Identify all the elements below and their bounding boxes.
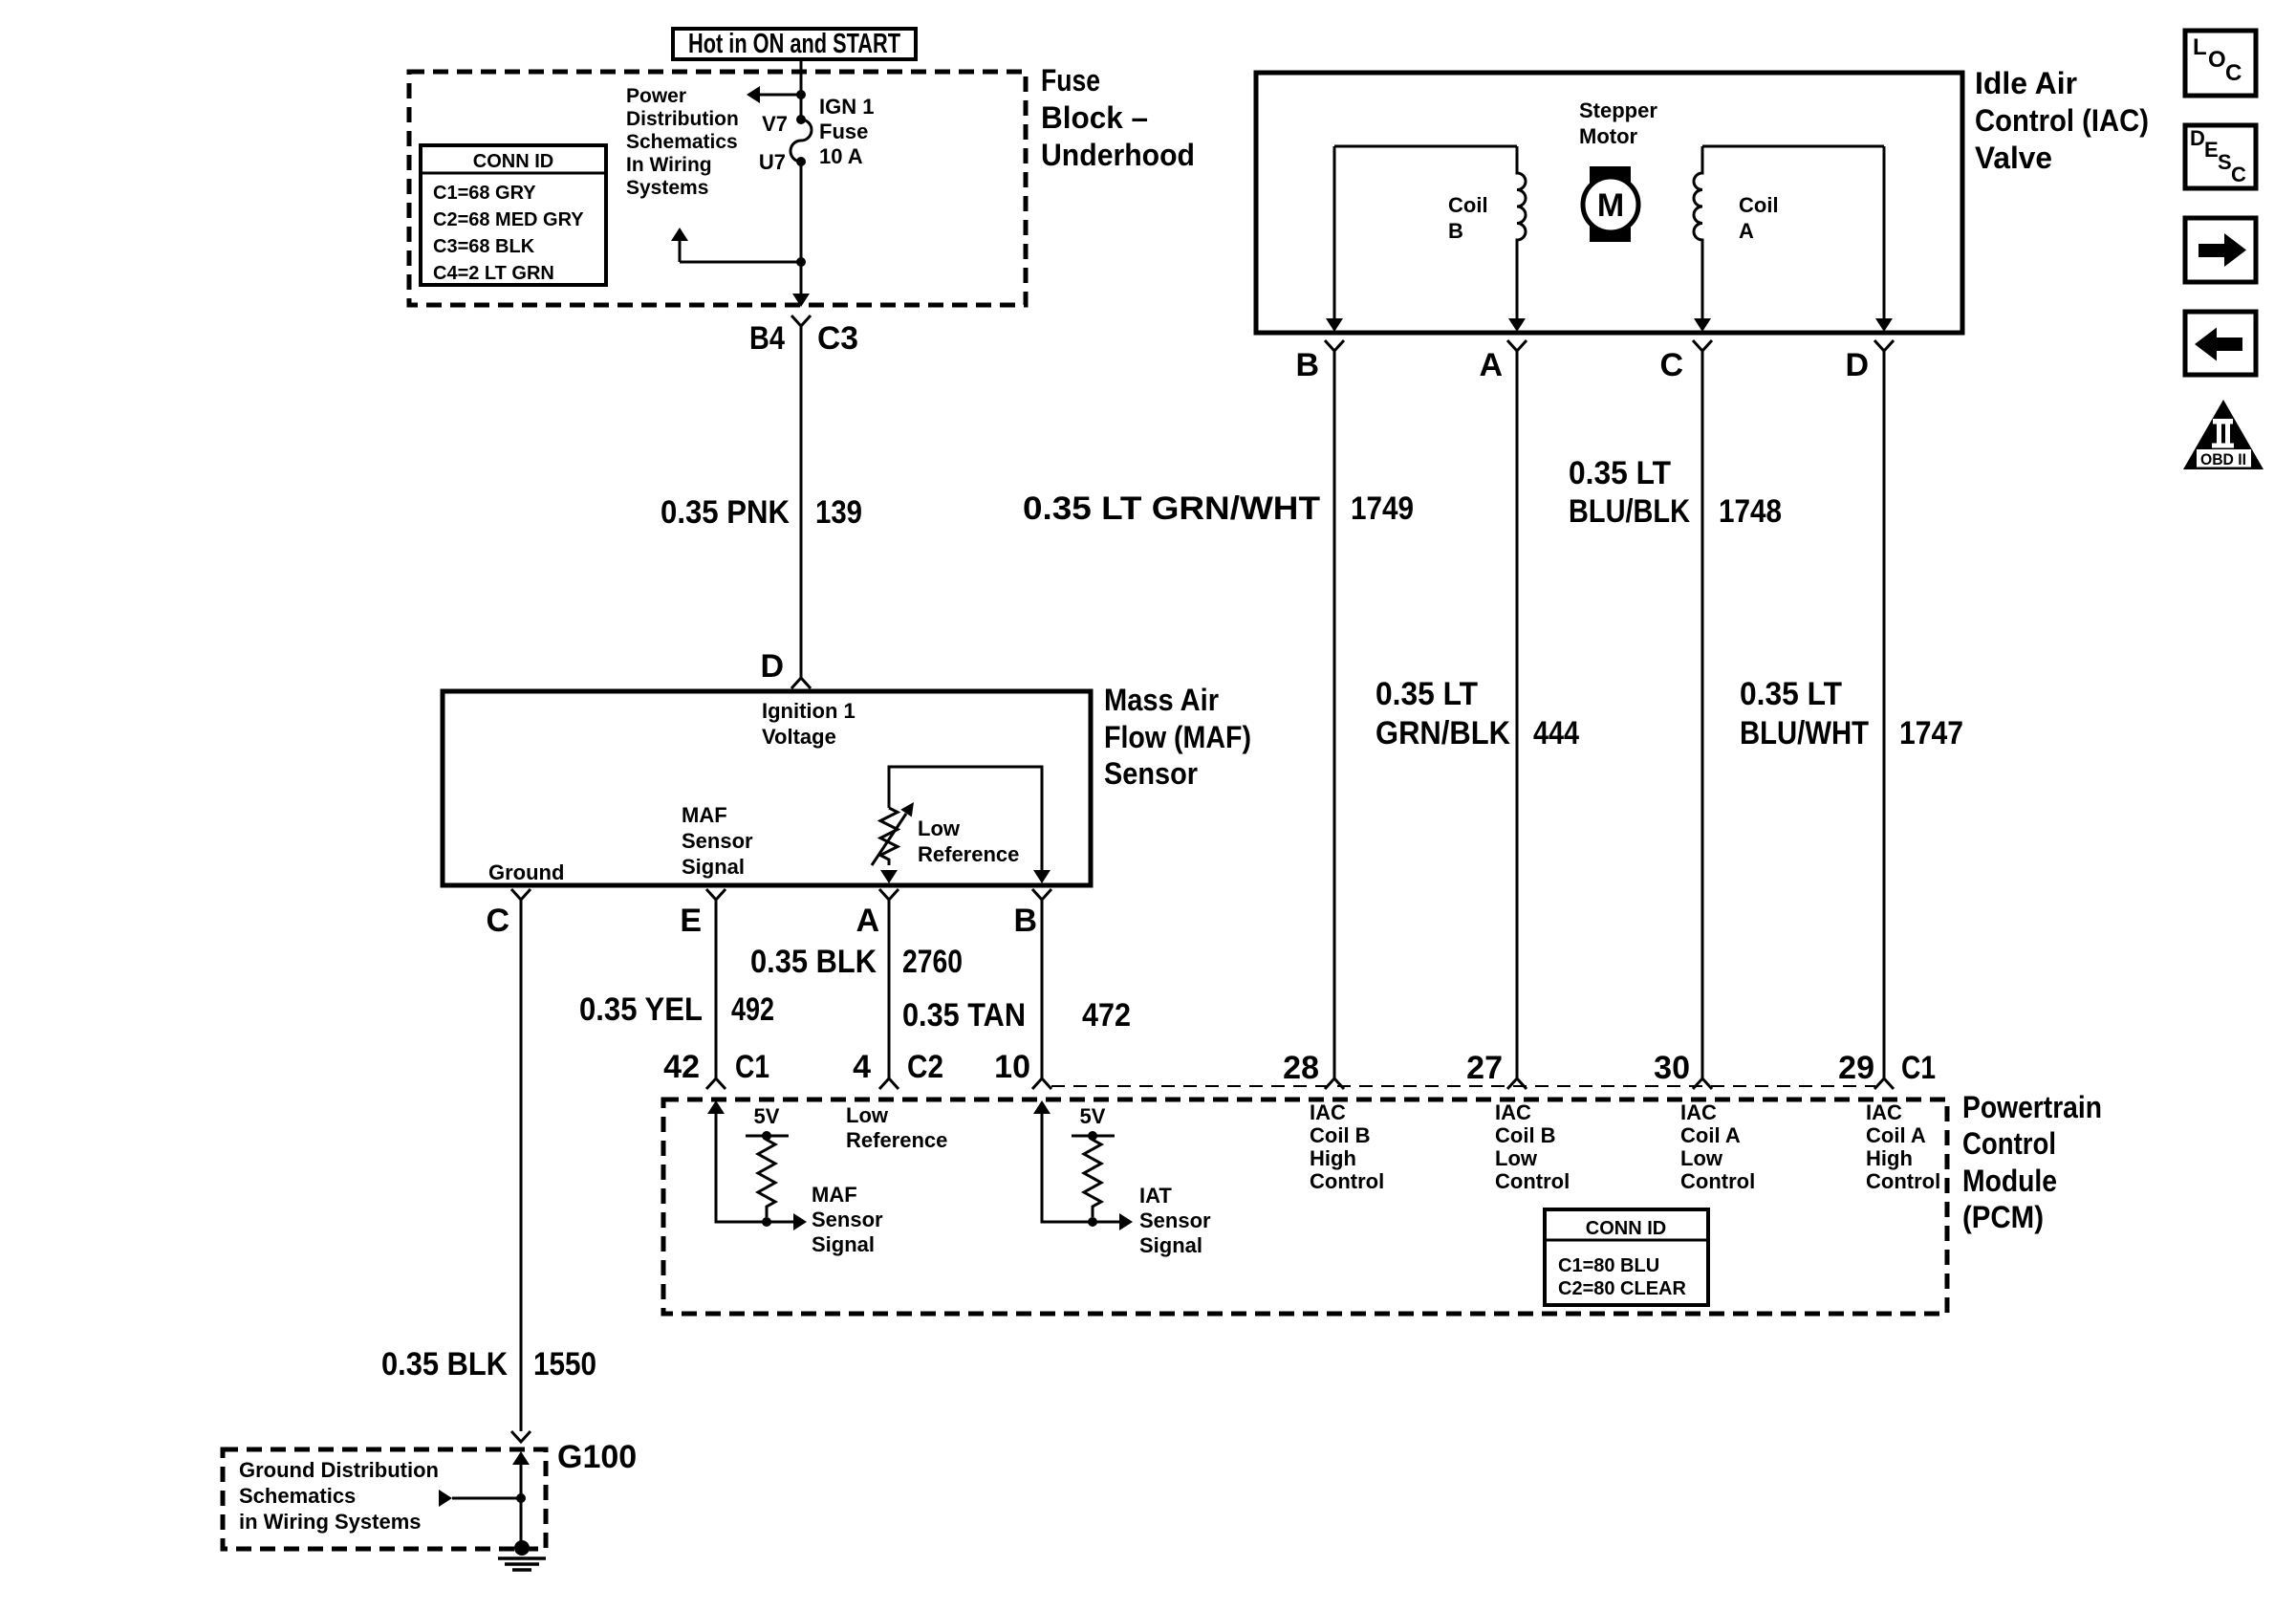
arrow: up to power distribution schematics	[671, 228, 688, 241]
svg-text:1747: 1747	[1899, 715, 1963, 751]
svg-text:1749: 1749	[1351, 490, 1414, 527]
svg-text:Valve: Valve	[1975, 141, 2052, 175]
svg-text:Coil B: Coil B	[1310, 1123, 1371, 1147]
connector A at MAF bottom	[879, 889, 899, 900]
hot in ON and START box	[673, 29, 916, 59]
arrow: forward (right)	[2199, 233, 2246, 267]
icon: back arrow box	[2185, 312, 2256, 375]
connector E at MAF bottom	[706, 889, 726, 900]
svg-text:5V: 5V	[754, 1104, 780, 1128]
wire: ground 0.35 BLK 1550	[520, 900, 523, 1431]
resistor: IAT pullup	[1084, 1136, 1101, 1217]
svg-text:IAC: IAC	[1495, 1100, 1531, 1124]
icon: LOC box	[2185, 31, 2256, 96]
svg-text:Control: Control	[1962, 1126, 2056, 1161]
svg-text:Sensor: Sensor	[812, 1208, 883, 1231]
svg-text:C1: C1	[735, 1049, 769, 1085]
connector at PCM pin 42	[706, 1078, 726, 1089]
svg-text:C1=80 BLU: C1=80 BLU	[1558, 1255, 1659, 1276]
node: ground junction	[516, 1493, 526, 1503]
label: Low Reference (PCM)	[846, 1103, 947, 1152]
svg-text:Motor: Motor	[1579, 124, 1638, 148]
wire: 0.35 LT GRN/WHT 1749	[1333, 351, 1336, 1078]
svg-text:0.35 LT: 0.35 LT	[1569, 455, 1671, 491]
svg-text:MAF: MAF	[812, 1183, 857, 1207]
label: 0.35 LT BLU/WHT 1747	[1740, 676, 1963, 751]
connector at PCM pin 28	[1325, 1078, 1344, 1089]
connector at G100	[511, 1431, 531, 1442]
svg-text:Fuse: Fuse	[819, 120, 868, 143]
svg-text:C2: C2	[907, 1049, 943, 1085]
svg-text:Systems: Systems	[626, 177, 708, 199]
svg-text:V7: V7	[762, 112, 788, 136]
arrow: coil B left into pin B	[1326, 318, 1343, 332]
svg-text:CONN ID: CONN ID	[1586, 1218, 1666, 1239]
node: MAF pullup junction	[762, 1217, 771, 1227]
IAC valve box	[1256, 73, 1962, 333]
connector line C1 (thin dashed)	[1051, 1085, 1875, 1087]
svg-text:Module: Module	[1962, 1164, 2057, 1198]
arrow: from other circuits (right-pointing)	[439, 1490, 452, 1507]
wire: MAF signal inside PCM	[716, 1114, 795, 1222]
svg-text:C3: C3	[817, 320, 858, 357]
label: IGN 1 Fuse 10 A	[819, 95, 874, 168]
svg-text:B4: B4	[749, 320, 785, 357]
svg-text:Coil B: Coil B	[1495, 1123, 1556, 1147]
svg-text:Voltage: Voltage	[762, 725, 836, 749]
svg-text:C4=2 LT GRN: C4=2 LT GRN	[433, 263, 554, 284]
svg-text:2760: 2760	[902, 944, 963, 980]
label: PCM pin 29 C1	[1838, 1050, 1936, 1086]
svg-text:B: B	[1013, 903, 1037, 939]
label: Fuse Block Underhood	[1041, 63, 1195, 172]
label: Coil B	[1448, 193, 1488, 243]
svg-text:1550: 1550	[533, 1346, 596, 1382]
svg-text:139: 139	[815, 494, 862, 531]
svg-text:High: High	[1310, 1146, 1356, 1170]
wire: 0.35 LT GRN/BLK 444	[1516, 351, 1519, 1078]
svg-text:0.35 LT GRN/WHT: 0.35 LT GRN/WHT	[1023, 490, 1320, 527]
PCM dashed box	[663, 1099, 1947, 1314]
label: DESC	[2190, 126, 2246, 186]
svg-text:Flow (MAF): Flow (MAF)	[1104, 720, 1251, 754]
icon: forward arrow box	[2185, 218, 2256, 282]
svg-text:BLU/BLK: BLU/BLK	[1569, 493, 1690, 530]
label: Power Distribution Schematics In Wiring Systems	[626, 85, 739, 199]
svg-text:10 A: 10 A	[819, 144, 863, 168]
svg-text:U7: U7	[759, 150, 786, 174]
svg-text:C: C	[1659, 347, 1683, 383]
label: MAF Sensor Signal (PCM)	[812, 1183, 883, 1256]
MAF sensor box	[443, 691, 1091, 885]
resistor: MAF low reference (variable)	[880, 808, 898, 865]
svg-text:IAC: IAC	[1310, 1100, 1346, 1124]
label: PCM pin 4 C2	[853, 1049, 943, 1085]
svg-text:IGN 1: IGN 1	[819, 95, 874, 119]
arrow: MAF sensor signal right	[793, 1213, 807, 1230]
wire: 0.35 LT BLU/WHT 1747	[1883, 351, 1886, 1078]
connector at PCM pin 30	[1693, 1078, 1712, 1089]
5V supply bar (MAF)	[746, 1135, 789, 1138]
svg-text:28: 28	[1283, 1050, 1319, 1086]
wire: low reference sub-loop	[889, 767, 1042, 870]
svg-text:Stepper: Stepper	[1579, 98, 1657, 122]
motor M symbol	[1583, 166, 1638, 242]
connector at PCM pin 29	[1874, 1078, 1894, 1089]
svg-text:4: 4	[853, 1049, 871, 1085]
arrow: MAF signal into PCM (up)	[707, 1100, 725, 1114]
ground symbol G100	[498, 1558, 546, 1570]
label: 0.35 LT GRN/BLK 444	[1375, 676, 1579, 751]
label: Stepper Motor	[1579, 98, 1657, 148]
svg-text:0.35 PNK: 0.35 PNK	[661, 494, 790, 531]
svg-text:BLU/WHT: BLU/WHT	[1740, 715, 1869, 751]
label: Powertrain Control Module (PCM)	[1962, 1090, 2102, 1234]
svg-text:Ground: Ground	[488, 860, 564, 884]
label: 0.35 LT BLU/BLK 1748	[1569, 455, 1782, 530]
svg-text:27: 27	[1466, 1050, 1503, 1086]
connector D at IAC	[1874, 340, 1894, 351]
arrow: to power distribution schematics (left)	[747, 86, 760, 103]
wire: MAF signal 0.35 YEL 492	[715, 900, 718, 1078]
wire: branch to other grounds	[452, 1497, 521, 1500]
connector B at MAF bottom	[1032, 889, 1051, 900]
svg-text:Ignition 1: Ignition 1	[762, 699, 856, 723]
arrow: IAT signal into PCM (up)	[1033, 1100, 1051, 1114]
connector C at IAC	[1693, 340, 1712, 351]
svg-text:0.35 TAN: 0.35 TAN	[902, 997, 1026, 1034]
svg-text:444: 444	[1533, 715, 1579, 751]
wire: IAT signal 0.35 TAN 472	[1041, 900, 1044, 1078]
label: IAC Coil B Low Control	[1495, 1100, 1570, 1193]
svg-text:Control: Control	[1310, 1169, 1384, 1193]
wire: 0.35 PNK 139	[800, 326, 803, 678]
wire: fuse output down	[800, 162, 803, 304]
arrow: into ground box (up)	[512, 1451, 530, 1465]
svg-text:Coil: Coil	[1739, 193, 1779, 217]
connector B4 / C3	[791, 316, 811, 326]
svg-text:IAC: IAC	[1680, 1100, 1717, 1124]
arrow: exit fuse block down	[792, 294, 810, 307]
svg-text:Distribution: Distribution	[626, 108, 739, 130]
svg-text:Coil: Coil	[1448, 193, 1488, 217]
svg-text:C1=68 GRY: C1=68 GRY	[433, 183, 536, 204]
svg-text:Coil A: Coil A	[1680, 1123, 1741, 1147]
label: Idle Air Control (IAC) Valve	[1975, 66, 2149, 175]
svg-text:Powertrain: Powertrain	[1962, 1090, 2102, 1124]
ground terminal dot	[514, 1540, 530, 1556]
svg-text:C2=80 CLEAR: C2=80 CLEAR	[1558, 1278, 1686, 1299]
svg-text:Schematics: Schematics	[626, 131, 738, 153]
svg-text:Control (IAC): Control (IAC)	[1975, 103, 2149, 138]
label: Ignition 1 Voltage	[762, 699, 856, 749]
resistor: MAF pullup	[758, 1136, 775, 1217]
svg-text:Block –: Block –	[1041, 100, 1148, 135]
svg-text:Sensor: Sensor	[1139, 1208, 1211, 1232]
svg-text:OBD II: OBD II	[2200, 450, 2246, 468]
arrow: resistor to ground (down)	[880, 870, 898, 883]
label: IAC Coil A Low Control	[1680, 1100, 1755, 1193]
connector at PCM pin 10	[1032, 1078, 1051, 1089]
svg-text:IAT: IAT	[1139, 1184, 1172, 1208]
svg-text:MAF: MAF	[682, 803, 727, 827]
wire: IAT signal inside PCM	[1042, 1114, 1121, 1222]
connector at PCM pin 27	[1507, 1078, 1527, 1089]
svg-text:472: 472	[1082, 997, 1131, 1034]
5V supply bar (IAT)	[1072, 1135, 1115, 1138]
svg-text:C: C	[486, 903, 509, 939]
svg-text:G100: G100	[557, 1439, 637, 1475]
svg-text:D: D	[1845, 347, 1869, 383]
svg-text:Idle Air: Idle Air	[1975, 66, 2077, 100]
svg-text:492: 492	[731, 991, 774, 1028]
label: LOC	[2193, 34, 2242, 86]
svg-text:in Wiring Systems: in Wiring Systems	[239, 1510, 422, 1534]
wire: branch to power distribution	[760, 94, 801, 97]
svg-text:C1: C1	[1901, 1050, 1936, 1086]
svg-text:0.35 LT: 0.35 LT	[1375, 676, 1478, 712]
svg-text:5V: 5V	[1080, 1104, 1106, 1128]
wire: coil B left leg	[1333, 146, 1336, 319]
svg-text:1748: 1748	[1719, 493, 1782, 530]
svg-text:Signal: Signal	[812, 1232, 875, 1256]
icon: DESC box	[2185, 125, 2256, 188]
wire: low reference 0.35 BLK 2760	[888, 900, 891, 1078]
coil B bracket top	[1334, 145, 1517, 148]
svg-text:Sensor: Sensor	[682, 829, 753, 853]
arrow: sub-loop right side down	[1033, 870, 1051, 883]
label: PCM connector id rows	[1558, 1255, 1686, 1299]
svg-text:L: L	[2193, 34, 2207, 60]
svg-text:Mass Air: Mass Air	[1104, 683, 1219, 717]
ground distribution dashed box	[223, 1449, 546, 1549]
svg-text:Reference: Reference	[918, 842, 1019, 866]
wire: coil A right leg	[1883, 146, 1886, 319]
svg-text:In Wiring: In Wiring	[626, 154, 712, 176]
inductor: coil A	[1694, 146, 1702, 319]
inductor: coil B	[1517, 146, 1526, 319]
svg-text:0.35 YEL: 0.35 YEL	[579, 991, 703, 1028]
svg-text:Schematics: Schematics	[239, 1484, 356, 1508]
fuse IGN 1 10A	[791, 115, 812, 166]
svg-text:Coil A: Coil A	[1866, 1123, 1926, 1147]
arrow: coil A left into pin C	[1694, 318, 1711, 332]
svg-text:0.35 BLK: 0.35 BLK	[750, 944, 877, 980]
node: junction to power distribution return	[796, 257, 806, 267]
svg-text:42: 42	[663, 1049, 700, 1085]
label: Ground Distribution Schematics in Wiring Systems	[239, 1458, 439, 1534]
svg-text:Control: Control	[1495, 1169, 1570, 1193]
label: Low Reference (inside MAF)	[918, 816, 1019, 866]
svg-text:E: E	[680, 903, 702, 939]
svg-text:Signal: Signal	[682, 855, 745, 879]
svg-text:D: D	[760, 648, 784, 685]
arrow: coil A right into pin D	[1875, 318, 1893, 332]
connector C at MAF bottom	[511, 889, 531, 900]
arrow: coil B right into pin A	[1508, 318, 1526, 332]
connector D at MAF	[791, 678, 811, 688]
svg-text:Low: Low	[918, 816, 961, 840]
wire: inside ground box	[520, 1465, 523, 1544]
svg-text:Power: Power	[626, 85, 686, 107]
arrow: variable resistor diagonal	[872, 814, 906, 865]
svg-text:30: 30	[1654, 1050, 1690, 1086]
svg-text:A: A	[1479, 347, 1503, 383]
wire: 0.35 LT BLU/BLK 1748	[1701, 351, 1704, 1078]
svg-text:Hot in ON and START: Hot in ON and START	[688, 29, 900, 59]
label: MAF Sensor Signal (inside MAF)	[682, 803, 753, 879]
label: PCM pin 42 C1	[663, 1049, 769, 1085]
label: connector id rows	[433, 183, 584, 284]
svg-text:GRN/BLK: GRN/BLK	[1375, 715, 1510, 751]
svg-text:Control: Control	[1866, 1169, 1940, 1193]
connector A at IAC	[1507, 340, 1527, 351]
arrow: IAT sensor signal right	[1119, 1213, 1133, 1230]
fuse block underhood dashed box	[409, 72, 1026, 305]
label: Coil A	[1739, 193, 1779, 243]
svg-text:A: A	[856, 903, 879, 939]
svg-text:B: B	[1448, 219, 1463, 243]
node: IAT pullup junction	[1088, 1217, 1097, 1227]
svg-text:CONN ID: CONN ID	[473, 151, 553, 172]
arrow: back (left)	[2195, 328, 2242, 361]
wire: branch left to up-arrow	[680, 261, 801, 264]
connector at PCM pin 4	[879, 1078, 899, 1089]
svg-text:10: 10	[994, 1049, 1030, 1085]
svg-text:Fuse: Fuse	[1041, 63, 1100, 98]
svg-text:29: 29	[1838, 1050, 1874, 1086]
svg-text:C: C	[2225, 60, 2242, 86]
node: junction to power distribution	[796, 90, 806, 99]
wire: battery feed from hot box	[800, 59, 803, 120]
svg-text:Low: Low	[1680, 1146, 1723, 1170]
icon: OBD II triangle	[2183, 400, 2264, 469]
svg-text:B: B	[1295, 347, 1319, 383]
coil A bracket top	[1702, 145, 1884, 148]
svg-text:0.35 LT: 0.35 LT	[1740, 676, 1842, 712]
svg-text:High: High	[1866, 1146, 1913, 1170]
CONN ID table (fuse block)	[421, 145, 606, 285]
svg-text:(PCM): (PCM)	[1962, 1200, 2044, 1234]
svg-text:O: O	[2208, 47, 2226, 73]
svg-text:Low: Low	[846, 1103, 889, 1127]
label: IAC Coil A High Control	[1866, 1100, 1940, 1193]
svg-text:A: A	[1739, 219, 1754, 243]
label: Mass Air Flow (MAF) Sensor	[1104, 683, 1251, 791]
connector B at IAC	[1325, 340, 1344, 351]
svg-text:Reference: Reference	[846, 1128, 947, 1152]
CONN ID table (PCM)	[1545, 1209, 1708, 1305]
svg-text:C3=68 BLK: C3=68 BLK	[433, 236, 535, 257]
svg-text:Sensor: Sensor	[1104, 756, 1198, 791]
svg-text:Low: Low	[1495, 1146, 1538, 1170]
svg-text:Signal: Signal	[1139, 1233, 1202, 1257]
svg-text:0.35 BLK: 0.35 BLK	[381, 1346, 508, 1382]
svg-text:D: D	[2190, 126, 2205, 150]
label: IAC Coil B High Control	[1310, 1100, 1384, 1193]
svg-text:Control: Control	[1680, 1169, 1755, 1193]
svg-text:Underhood: Underhood	[1041, 138, 1195, 172]
label: IAT Sensor Signal (PCM)	[1139, 1184, 1211, 1257]
svg-text:M: M	[1597, 187, 1624, 224]
svg-text:IAC: IAC	[1866, 1100, 1902, 1124]
svg-text:Ground Distribution: Ground Distribution	[239, 1458, 439, 1482]
svg-text:C2=68 MED GRY: C2=68 MED GRY	[433, 209, 584, 230]
svg-text:E: E	[2204, 138, 2219, 162]
svg-text:C: C	[2231, 163, 2246, 186]
svg-text:S: S	[2218, 150, 2232, 174]
